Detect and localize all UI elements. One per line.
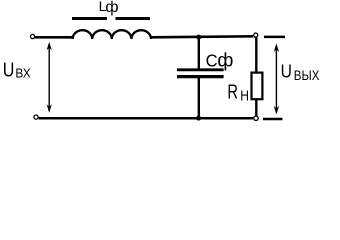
svg-text:R: R <box>227 81 238 104</box>
bottom wire <box>39 117 254 120</box>
svg-text:ф: ф <box>217 50 233 72</box>
reference line top (Uвых) <box>264 36 285 39</box>
capacitor Сф top plate <box>177 68 224 71</box>
node junction top (capacitor tap) <box>196 35 201 40</box>
inductor Lф <box>73 30 151 39</box>
arrow Uвх (double-headed) <box>47 42 52 113</box>
reference line bottom (Uвых) <box>263 118 282 121</box>
svg-text:ф: ф <box>105 0 118 16</box>
wire top right <box>151 36 253 37</box>
output terminal bottom <box>254 116 258 120</box>
svg-text:Н: Н <box>240 88 249 105</box>
wire capacitor branch upper <box>198 37 200 70</box>
svg-text:U: U <box>281 61 292 82</box>
wire resistor branch upper <box>255 38 257 73</box>
input terminal top <box>30 34 34 38</box>
svg-text:ВХ: ВХ <box>15 67 31 81</box>
wire top left <box>35 36 74 39</box>
svg-text:ВЫХ: ВЫХ <box>294 67 320 83</box>
svg-text:U: U <box>3 58 15 81</box>
output terminal top <box>254 33 258 37</box>
arrow Uвых (double-headed) <box>274 44 279 115</box>
node junction bottom <box>196 116 201 121</box>
svg-text:С: С <box>206 51 218 71</box>
inductor core dashed line <box>72 17 150 20</box>
resistor Rн <box>252 73 263 100</box>
input terminal bottom <box>34 115 38 119</box>
wire capacitor branch lower <box>198 78 200 119</box>
capacitor Сф bottom plate <box>177 75 224 78</box>
wire resistor branch lower <box>255 100 257 116</box>
